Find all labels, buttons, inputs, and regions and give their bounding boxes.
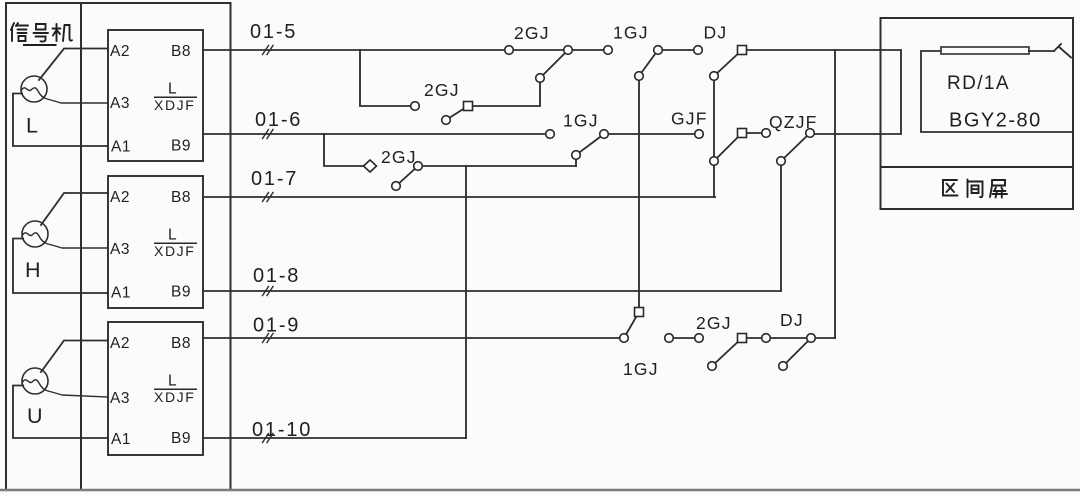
armature 1GJ row1 (639, 50, 658, 76)
glyph 号 (34, 24, 49, 42)
contact circle QZJF heel (777, 157, 786, 166)
svg-text:1GJ: 1GJ (623, 359, 659, 379)
armature QZJF (781, 133, 810, 161)
svg-text:B8: B8 (171, 43, 191, 60)
svg-text:1GJ: 1GJ (563, 111, 599, 131)
lamp U circle (22, 368, 48, 394)
fuse switch hook (1054, 44, 1071, 58)
contact circle 2GJ bottom link a (665, 334, 674, 343)
svg-text:2GJ: 2GJ (424, 80, 460, 100)
svg-text:01-5: 01-5 (250, 21, 297, 43)
vertical DJ-GJF bus (713, 76, 715, 197)
lamp U filament (22, 380, 108, 397)
wire lamp U to A2 (41, 341, 108, 373)
glyph 机 (53, 24, 73, 41)
svg-text:1GJ: 1GJ (613, 23, 649, 43)
text 区间屏 (hand-drawn strokes) (943, 180, 1007, 198)
wire 1GJ to GJF (604, 133, 699, 135)
wire lamp U left to A1 (13, 386, 108, 439)
wire lamp H to A2 (41, 193, 108, 225)
wire 2GJ branch down (360, 50, 415, 106)
wire 2GJ branch row2 (324, 134, 370, 166)
svg-text:01-8: 01-8 (253, 265, 300, 287)
vertical DJ right bus (834, 50, 836, 338)
vertical QZJF to 01-8 (780, 161, 782, 291)
svg-text:B8: B8 (171, 189, 191, 206)
armature 2GJ bottom (712, 338, 742, 366)
svg-text:XDJF: XDJF (154, 243, 195, 259)
wire 2GJ row2 to 1GJ (418, 165, 576, 167)
contact circle 2GJ heel (536, 74, 545, 83)
cable mark 01-10 (263, 434, 274, 443)
contact circle 2GJ row2 arm (414, 162, 423, 171)
svg-text:A2: A2 (110, 335, 130, 352)
fuse compartment box (921, 51, 1073, 132)
wire DJ bottom to vertical (811, 337, 835, 339)
svg-text:A3: A3 (110, 390, 130, 407)
svg-text:01-7: 01-7 (251, 168, 298, 190)
lamp H circle (22, 221, 48, 247)
armature 1GJ bottom (624, 312, 639, 338)
lamp L filament (21, 88, 108, 103)
contact circle DJ bottom arm (807, 334, 816, 343)
armature DJ row1 (714, 50, 742, 76)
svg-text:A3: A3 (110, 95, 130, 112)
section panel box 区间屏 (881, 18, 1074, 209)
svg-text:RD/1A: RD/1A (947, 73, 1010, 94)
contact circle 1GJ bottom fixed (620, 334, 629, 343)
svg-text:L: L (168, 373, 177, 390)
svg-text:B9: B9 (171, 284, 191, 301)
relay box U1 XDJF(L) (108, 30, 203, 161)
contact circle GJF heel (710, 157, 719, 166)
signal machine outer box 信号机 (6, 3, 231, 490)
text 信号机 (hand-drawn strokes) (11, 23, 72, 42)
contact circle 2GJ left row1 (505, 46, 514, 55)
armature DJ bottom (783, 338, 811, 366)
fraction bar U3 (154, 388, 197, 390)
contact square DJ back row1 (738, 46, 747, 55)
armature 1GJ row2 (576, 134, 604, 166)
armature 2GJ row1 (540, 50, 568, 78)
glyph 间 (968, 180, 983, 198)
fraction bar U2 (154, 242, 197, 244)
wire 1GJ to DJ row1 (658, 49, 698, 51)
glyph 区 (943, 180, 958, 196)
svg-text:2GJ: 2GJ (696, 313, 732, 333)
contact circle 1GJ heel row1 (635, 72, 644, 81)
armature 2GJ branch (446, 106, 468, 120)
contact circle 2GJ branch arm (442, 116, 451, 125)
svg-text:H: H (25, 258, 41, 282)
contact circle 2GJ common row1 (564, 46, 573, 55)
contact circle DJ bottom heel (779, 362, 788, 371)
glyph 信 (11, 23, 28, 41)
armature 2GJ row2 (396, 166, 418, 186)
svg-text:L: L (168, 227, 177, 244)
contact circle DJ bottom link (762, 334, 771, 343)
svg-text:A1: A1 (111, 139, 131, 156)
glyph 屏 (990, 180, 1007, 198)
wire 2GJ back contact link (468, 78, 540, 106)
wire GJF square to circle (742, 132, 766, 134)
svg-text:A3: A3 (110, 241, 130, 258)
svg-text:QZJF: QZJF (769, 112, 818, 132)
cable mark 01-7 (263, 193, 274, 202)
contact circle 2GJ bottom heel (708, 362, 717, 371)
svg-text:DJ: DJ (780, 310, 804, 330)
contact square GJF back (738, 129, 747, 138)
section panel divider (881, 166, 1074, 168)
contact diamond 2GJ row2 fixed (364, 160, 377, 172)
svg-text:L: L (168, 81, 177, 98)
wire 01-9 row (203, 337, 624, 339)
svg-text:XDJF: XDJF (154, 389, 195, 405)
svg-text:B8: B8 (171, 335, 191, 352)
wire 2GJ to DJ bottom (742, 337, 811, 339)
contact circle 2GJ row2 heel (392, 182, 401, 191)
vertical 1GJ bus (638, 76, 640, 312)
svg-text:L: L (26, 114, 38, 138)
svg-text:XDJF: XDJF (154, 97, 195, 113)
link 2GJ bottom left (669, 337, 699, 339)
lamp L circle (21, 76, 47, 102)
wire after fuse (1029, 50, 1054, 52)
bottom frame line (0, 489, 1080, 491)
contact circle 1GJ arm row1 (654, 46, 663, 55)
contact square 2GJ branch back (464, 102, 473, 111)
contact circle 2GJ bottom link b (695, 334, 704, 343)
contact circle 01-6 end (546, 130, 555, 139)
svg-text:A1: A1 (111, 431, 131, 448)
svg-text:2GJ: 2GJ (381, 147, 417, 167)
lamp H filament (22, 233, 108, 248)
relay box U2 XDJF(H) (108, 176, 203, 308)
svg-text:01-9: 01-9 (253, 315, 300, 337)
contact circle GJF fixed (695, 130, 704, 139)
contact circle DJ fixed row1 (694, 46, 703, 55)
fuse RD/1A body (941, 47, 1029, 54)
contact square 1GJ bottom back (635, 308, 644, 317)
svg-text:01-10: 01-10 (252, 419, 312, 441)
wire 01-10 row (203, 437, 466, 439)
svg-text:B9: B9 (171, 430, 191, 447)
wire 01-5 row (203, 49, 608, 51)
wire lamp L left to A1 (13, 94, 108, 147)
svg-text:A2: A2 (110, 189, 130, 206)
underline of 信号机 (23, 44, 57, 46)
svg-text:GJF: GJF (671, 109, 708, 129)
wire lamp L to A2 (39, 49, 108, 81)
cable mark 01-6 (263, 130, 274, 139)
svg-text:A1: A1 (111, 285, 131, 302)
relay box U3 XDJF(U) (108, 322, 203, 455)
cable mark 01-9 (263, 334, 274, 343)
contact circle 1GJ heel row2 (572, 151, 581, 160)
cable mark 01-8 (263, 287, 274, 296)
svg-text:DJ: DJ (704, 23, 728, 43)
wire DJ to panel (742, 50, 901, 134)
svg-text:01-6: 01-6 (255, 109, 302, 131)
wire lamp H left to A1 (13, 239, 108, 294)
wire 01-6 row (203, 133, 550, 135)
contact circle GJF link (762, 129, 771, 138)
contact circle 1GJ fixed row1 (604, 46, 613, 55)
armature GJF (714, 133, 742, 161)
svg-text:U: U (27, 404, 43, 428)
contact square 2GJ bottom back (738, 334, 747, 343)
svg-text:B9: B9 (171, 138, 191, 155)
svg-text:2GJ: 2GJ (514, 23, 550, 43)
svg-text:A2: A2 (110, 43, 130, 60)
fraction bar U1 (154, 96, 197, 98)
cable mark 01-5 (263, 46, 274, 55)
contact circle QZJF arm (806, 129, 815, 138)
svg-text:BGY2-80: BGY2-80 (949, 110, 1042, 132)
contact circle 2GJ branch fixed (411, 102, 420, 111)
divider of signal box (80, 3, 82, 490)
vertical to 01-10 (465, 166, 467, 438)
contact circle 1GJ arm row2 (600, 130, 609, 139)
wire 01-8 row (203, 290, 781, 292)
contact circle DJ heel row1 (710, 72, 719, 81)
wire 01-7 row (203, 196, 715, 198)
